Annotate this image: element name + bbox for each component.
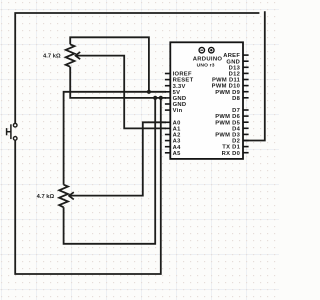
pin stub D13 <box>243 66 249 68</box>
pin stub D2 <box>243 140 249 142</box>
svg-text:PWM D9: PWM D9 <box>215 90 240 96</box>
potentiometer R1 zigzag body <box>66 44 75 66</box>
svg-text:A0: A0 <box>173 120 181 126</box>
svg-text:PWM D5: PWM D5 <box>215 120 240 126</box>
pin stub 3.3V <box>165 85 170 87</box>
svg-text:A5: A5 <box>173 151 181 157</box>
pin stub AREF <box>243 54 249 56</box>
svg-text:Vin: Vin <box>173 108 183 114</box>
pin stub D6 <box>243 115 249 117</box>
svg-text:TX D1: TX D1 <box>222 145 240 151</box>
pin stub GND <box>243 60 249 62</box>
svg-text:PWM D3: PWM D3 <box>215 133 240 139</box>
pin stub D0 <box>243 152 249 154</box>
pin stub D12 <box>243 72 249 74</box>
pin stub D9 <box>243 91 249 93</box>
svg-text:PWM D10: PWM D10 <box>212 84 241 90</box>
wire: R1 bottom terminal to GND pin <box>70 67 166 98</box>
pin stub D10 <box>243 85 249 87</box>
junction node on 5V rail <box>147 90 151 94</box>
pin stub 5V <box>165 91 170 93</box>
wire: right-side drop from top rail down to pin D2 <box>244 11 265 140</box>
pin stub GND2 <box>165 103 170 105</box>
wire: R1 top terminal over and down to 5V rail junction <box>70 37 149 92</box>
svg-text:AREF: AREF <box>223 53 240 59</box>
junction node on GND rail (R2 bottom riser) <box>153 96 157 100</box>
pin stub A2 <box>165 134 170 136</box>
wire: R2 top terminal riser joining 5V rail to 5V pin <box>64 92 166 185</box>
pin stub D7 <box>243 109 249 111</box>
svg-text:RESET: RESET <box>173 78 194 84</box>
pin stub D8 <box>243 97 249 99</box>
svg-text:3.3V: 3.3V <box>173 84 186 90</box>
svg-text:RX D0: RX D0 <box>222 151 241 157</box>
svg-text:D4: D4 <box>232 126 240 132</box>
IC U1 Arduino Uno r3 body <box>170 42 243 159</box>
svg-text:A4: A4 <box>173 145 181 151</box>
pushbutton S1 plunger <box>7 124 11 139</box>
pin stub A4 <box>165 146 170 148</box>
svg-text:A3: A3 <box>173 139 181 145</box>
pin stub D4 <box>243 127 249 129</box>
svg-text:D12: D12 <box>229 72 241 78</box>
pushbutton S1 top contact <box>13 123 17 127</box>
junction node on GND rail (switch riser) <box>159 96 163 100</box>
svg-text:4.7 kΩ: 4.7 kΩ <box>37 194 55 200</box>
pin stub A1 <box>165 127 170 129</box>
Arduino logo left circle with minus <box>199 47 205 53</box>
pin stub GND1 <box>165 97 170 99</box>
potentiometer R2 zigzag body <box>59 185 68 208</box>
svg-text:A2: A2 <box>173 133 181 139</box>
pin stub D11 <box>243 79 249 81</box>
svg-text:GND: GND <box>226 59 240 65</box>
pin stub A5 <box>165 152 170 154</box>
Arduino logo right circle with dot <box>209 47 215 53</box>
pin stub IOREF <box>165 73 170 75</box>
pin stub D1 <box>243 146 249 148</box>
wire: switch S1 bottom terminal down, bottom rail, riser to GND junction <box>15 98 161 274</box>
svg-text:D2: D2 <box>232 139 240 145</box>
svg-text:4.7 kΩ: 4.7 kΩ <box>43 53 61 59</box>
pushbutton S1 bottom contact <box>13 137 17 141</box>
svg-text:A1: A1 <box>173 127 181 133</box>
potentiometer R2 wiper arrow <box>69 192 74 199</box>
pin stub D3 <box>243 133 249 135</box>
svg-text:PWM D6: PWM D6 <box>215 114 240 120</box>
pin stub D5 <box>243 121 249 123</box>
pin stub RESET <box>165 79 170 81</box>
wire: pin A0 down and left to R2 wiper <box>69 122 166 195</box>
pin stub A0 <box>165 121 170 123</box>
svg-text:GND: GND <box>173 96 187 102</box>
svg-text:D7: D7 <box>232 108 240 114</box>
wire: switch S1 top terminal up and along top rail toward D2 <box>15 13 259 123</box>
svg-text:D13: D13 <box>229 65 241 71</box>
potentiometer R1 wiper arrow <box>75 52 80 59</box>
pin stub Vin <box>165 109 170 111</box>
svg-text:PWM D11: PWM D11 <box>212 78 241 84</box>
wire: R2 bottom terminal right and riser up to GND junction <box>64 98 156 244</box>
svg-text:IOREF: IOREF <box>173 72 192 78</box>
svg-text:ARDUINO: ARDUINO <box>193 56 223 62</box>
svg-text:UNO r3: UNO r3 <box>197 62 215 68</box>
svg-text:5V: 5V <box>173 90 181 96</box>
pin stub A3 <box>165 140 170 142</box>
wire: R1 wiper to pin A1 <box>76 56 166 129</box>
svg-text:GND: GND <box>173 102 187 108</box>
svg-text:D8: D8 <box>232 96 240 102</box>
